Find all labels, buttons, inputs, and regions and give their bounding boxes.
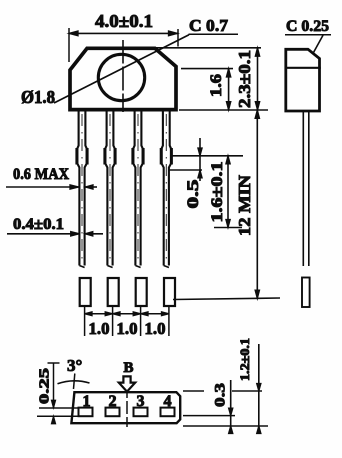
svg-text:1.0: 1.0 xyxy=(89,319,110,338)
bottom view body outline xyxy=(71,392,180,423)
lead 2 xyxy=(105,112,119,337)
svg-text:C 0.7: C 0.7 xyxy=(189,16,229,35)
svg-text:1.2±0.1: 1.2±0.1 xyxy=(238,338,252,381)
dimension 4.0 extension line left xyxy=(68,28,70,62)
lead bottom extension line right xyxy=(183,415,235,417)
body bottom extension line right xyxy=(183,425,268,427)
lead tip plane extension line xyxy=(173,298,280,300)
bottom view lead section 4 xyxy=(161,408,175,417)
side view body xyxy=(286,49,320,111)
svg-text:0.6 MAX: 0.6 MAX xyxy=(13,166,69,183)
mounting hole circle xyxy=(98,54,144,100)
dimension 0.3 xyxy=(230,380,232,434)
crimp bottom extension tick xyxy=(168,169,202,171)
svg-text:1.6±0.1: 1.6±0.1 xyxy=(209,162,226,223)
front view body outline xyxy=(70,48,176,109)
dimension 1.6 (body) xyxy=(228,69,230,110)
draft angle reference line xyxy=(74,374,75,390)
svg-text:1.0: 1.0 xyxy=(117,319,138,338)
bottom view lead section 2 xyxy=(106,408,120,417)
svg-text:1.0: 1.0 xyxy=(145,319,166,338)
chamfer-bottom extension line 1.6 xyxy=(181,68,233,70)
svg-text:0.5: 0.5 xyxy=(185,180,202,209)
svg-text:0.3: 0.3 xyxy=(213,383,229,407)
lead bottom extension line left xyxy=(37,415,79,417)
lead 3 xyxy=(133,112,147,337)
bottom view centerline xyxy=(126,389,128,428)
dimension 0.5 xyxy=(199,138,201,181)
dimension 2.3±0.1 xyxy=(257,48,259,110)
draft angle arc xyxy=(58,381,90,384)
top edge extension line to right xyxy=(156,47,261,49)
svg-text:3°: 3° xyxy=(67,356,82,375)
lead 1 xyxy=(77,112,91,337)
hole diameter leader line xyxy=(54,35,189,103)
svg-text:0.25: 0.25 xyxy=(38,368,53,404)
body bottom extension line xyxy=(179,109,268,111)
svg-text:2.3±0.1: 2.3±0.1 xyxy=(235,50,254,108)
bottom view lead section 1 xyxy=(79,408,93,417)
dimension 1.6±0.1 (lead) xyxy=(227,156,229,228)
dimension 4.0 extension line right xyxy=(177,29,179,47)
body top extension line right xyxy=(183,390,204,392)
vertical centerline through hole xyxy=(122,40,124,112)
svg-text:Ø1.8: Ø1.8 xyxy=(21,87,55,107)
bottom view lead section 3 xyxy=(134,408,148,417)
lead 4 xyxy=(161,112,175,337)
side view chamfer leader xyxy=(314,35,324,52)
dimension 1.2±0.1 xyxy=(258,344,260,434)
view arrow B xyxy=(119,376,135,391)
dimension 0.25 xyxy=(53,363,55,408)
side view lead break segment xyxy=(302,278,310,308)
dimension 12 MIN xyxy=(256,110,258,299)
svg-text:4.0±0.1: 4.0±0.1 xyxy=(95,11,153,31)
lead top extension line left xyxy=(39,407,79,409)
svg-text:4: 4 xyxy=(164,393,172,410)
svg-text:C 0.25: C 0.25 xyxy=(286,18,329,35)
crimp top extension tick xyxy=(172,155,244,157)
dimension line 4.0 xyxy=(69,32,178,34)
svg-text:1.6: 1.6 xyxy=(208,74,225,97)
svg-text:3: 3 xyxy=(137,393,145,410)
svg-text:B: B xyxy=(124,360,134,376)
side view mold line xyxy=(285,67,321,69)
side view lead xyxy=(302,112,304,266)
svg-text:0.4±0.1: 0.4±0.1 xyxy=(13,216,64,233)
dimension 1.0 pitch line xyxy=(85,313,169,315)
svg-text:2: 2 xyxy=(109,393,117,410)
svg-text:1: 1 xyxy=(83,393,91,410)
